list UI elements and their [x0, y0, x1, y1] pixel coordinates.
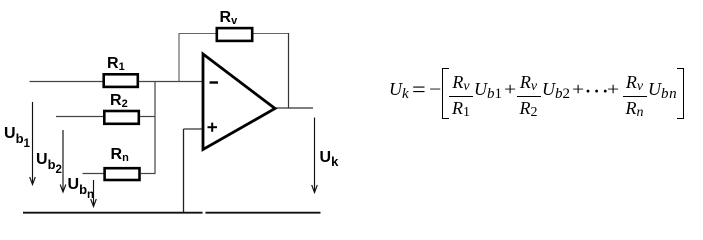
- wire input to R2: [56, 116, 103, 118]
- ground rail right segment: [206, 212, 321, 214]
- arrow Uk output voltage: [312, 118, 318, 193]
- label Ub1: [4, 126, 30, 151]
- resistor R2: [104, 111, 139, 124]
- op-amp U1 triangle: [203, 54, 275, 150]
- formula plus sign 1: [504, 80, 516, 98]
- formula Ubn: [648, 80, 677, 102]
- formula plus sign 3: [607, 80, 619, 98]
- formula Uk term: [389, 80, 409, 102]
- formula fraction Rv over R1: [449, 73, 473, 120]
- arrow Ub1 voltage: [30, 102, 36, 185]
- wire R1 output to op-amp inverting input: [139, 81, 203, 83]
- resistor Rn: [105, 168, 140, 180]
- formula plus sign 2: [572, 80, 584, 98]
- resistor R1: [104, 74, 138, 87]
- label Ubn: [68, 177, 95, 202]
- arrow Ubn voltage: [91, 180, 97, 207]
- wire input to Rn: [83, 173, 104, 175]
- wire R2 output to junction: [140, 116, 156, 118]
- wire op-amp output: [275, 107, 313, 109]
- formula right bracket: [677, 68, 684, 119]
- op-amp inverting input minus sign: [210, 81, 219, 83]
- formula cdots: [585, 82, 611, 100]
- formula equals sign: [412, 77, 426, 100]
- formula fraction Rv over R2: [517, 73, 541, 120]
- wire non-inverting input to ground vertical: [183, 129, 185, 213]
- resistor Rv feedback: [217, 28, 252, 41]
- formula Ub2: [542, 80, 570, 102]
- wire minus-input horizontal left of R1: [30, 81, 103, 83]
- wire feedback right vertical: [288, 33, 290, 108]
- wire non-inverting input horizontal: [184, 128, 204, 130]
- label R2: [110, 93, 128, 110]
- label Uk: [320, 150, 339, 168]
- label Ub2: [36, 152, 62, 177]
- formula Ub1: [474, 80, 502, 102]
- arrow Ub2 voltage: [60, 130, 66, 192]
- wire Rn output to junction: [141, 173, 156, 175]
- formula left bracket: [442, 68, 449, 119]
- wire feedback top left segment: [179, 33, 217, 35]
- formula minus sign: [429, 80, 441, 98]
- formula fraction Rv over Rn: [623, 73, 647, 120]
- op-amp non-inverting input plus sign: [208, 126, 218, 128]
- wire feedback left vertical: [178, 34, 180, 82]
- ground rail left segment: [23, 212, 203, 214]
- label Rn: [111, 147, 129, 164]
- label Rv: [220, 10, 238, 27]
- wire summing junction vertical: [154, 82, 156, 174]
- wire feedback top right segment: [254, 33, 290, 35]
- label R1: [107, 56, 125, 73]
